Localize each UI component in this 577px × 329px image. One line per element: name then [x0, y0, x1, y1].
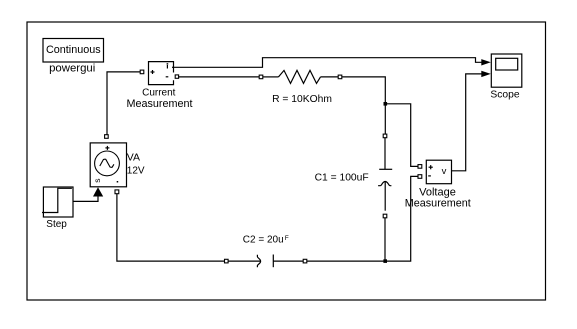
svg-text:Measurement: Measurement	[126, 98, 192, 110]
svg-text:Scope: Scope	[490, 90, 519, 101]
wire Current Measurement i output to Scope input 1	[174, 58, 483, 68]
wire capacitor C1 bottom to node B	[384, 218, 386, 261]
wire resistor R to node A and capacitor C1 top	[342, 77, 386, 134]
wire Step output to VA s input	[73, 197, 98, 202]
node B junction	[383, 259, 387, 263]
svg-text:Continuous: Continuous	[46, 44, 101, 56]
svg-text:C1 = 100uF: C1 = 100uF	[315, 172, 369, 183]
svg-text:Step: Step	[46, 219, 67, 230]
svg-text:s: s	[92, 178, 102, 182]
step block	[42, 187, 73, 230]
svg-text:C2 = 20u: C2 = 20u	[243, 235, 284, 246]
wire VA + terminal to Current Measurement input	[107, 72, 140, 135]
svg-text:VA: VA	[127, 151, 140, 163]
wire capacitor C2 to node B and Voltage Measurement - input	[307, 176, 418, 261]
arrowhead scope input 1	[481, 59, 491, 65]
wire Voltage Measurement v output to Scope input 2	[452, 74, 483, 171]
wire node A to Voltage Measurement + input	[385, 104, 418, 167]
capacitor C1 = 100uF	[315, 134, 393, 218]
node A junction	[384, 102, 388, 106]
resistor R1	[259, 70, 342, 105]
svg-text:12V: 12V	[127, 165, 145, 176]
wire VA - terminal to capacitor C2	[117, 194, 225, 261]
svg-text:v: v	[442, 166, 447, 177]
arrowhead scope input 2	[481, 71, 491, 77]
voltage source VA 12V	[90, 135, 145, 194]
powergui block	[43, 39, 104, 75]
current measurement block	[126, 62, 192, 111]
svg-text:Current: Current	[142, 87, 176, 98]
arrowhead step signal into VA	[93, 187, 103, 196]
wire Current Measurement - terminal to resistor R	[179, 76, 260, 78]
svg-text:F: F	[285, 235, 289, 242]
svg-text:powergui: powergui	[49, 63, 95, 75]
svg-text:Measurement: Measurement	[405, 197, 471, 209]
capacitor C2 = 20uF	[225, 235, 307, 268]
voltage measurement block	[405, 160, 471, 209]
scope block	[490, 54, 521, 101]
svg-text:R = 10KOhm: R = 10KOhm	[272, 94, 332, 105]
